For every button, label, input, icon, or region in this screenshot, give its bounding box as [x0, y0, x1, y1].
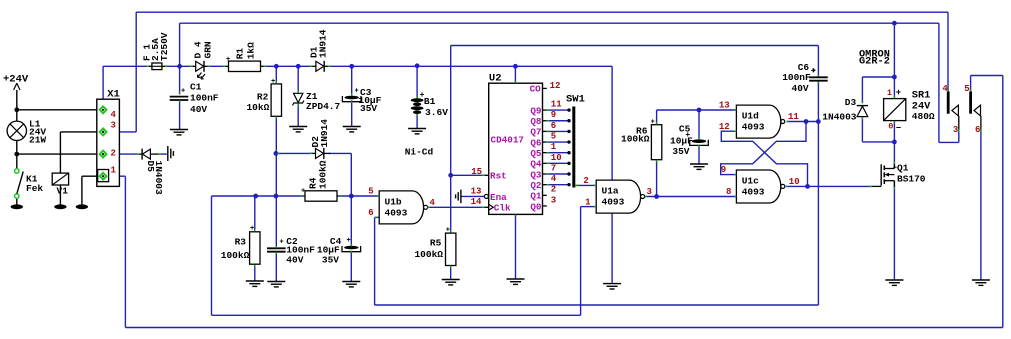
svg-text:Q9: Q9	[530, 105, 542, 116]
svg-text:1N4003: 1N4003	[822, 112, 857, 123]
svg-text:21W: 21W	[29, 135, 46, 146]
svg-text:35V: 35V	[360, 103, 377, 114]
svg-text:U1d: U1d	[742, 111, 759, 122]
svg-text:Q8: Q8	[530, 116, 542, 127]
svg-text:1: 1	[551, 142, 557, 152]
svg-text:U1c: U1c	[742, 176, 759, 187]
svg-text:Ena: Ena	[490, 192, 507, 203]
svg-text:4093: 4093	[602, 197, 625, 208]
svg-text:5: 5	[368, 187, 373, 197]
svg-text:D3: D3	[845, 97, 857, 108]
svg-text:GRN: GRN	[202, 41, 213, 58]
svg-text:+: +	[685, 131, 690, 140]
svg-text:C1: C1	[190, 81, 202, 92]
svg-text:10: 10	[789, 177, 800, 187]
svg-text:8: 8	[726, 187, 731, 197]
svg-text:6: 6	[368, 208, 373, 218]
svg-text:13: 13	[471, 186, 482, 196]
svg-text:3: 3	[647, 187, 652, 197]
svg-text:100kΩ: 100kΩ	[318, 160, 329, 189]
svg-text:4: 4	[430, 198, 436, 208]
svg-text:Clk: Clk	[494, 203, 511, 214]
svg-text:+: +	[226, 56, 230, 64]
svg-text:9: 9	[721, 165, 726, 175]
svg-text:+24V: +24V	[3, 73, 29, 85]
svg-text:3: 3	[551, 195, 556, 205]
svg-text:40V: 40V	[792, 83, 809, 94]
svg-text:1: 1	[887, 88, 892, 98]
svg-text:Q0: Q0	[530, 201, 542, 212]
svg-text:+: +	[347, 237, 351, 245]
svg-text:V1: V1	[57, 186, 69, 197]
svg-text:1: 1	[111, 165, 117, 175]
svg-text:T250V: T250V	[159, 32, 170, 61]
svg-text:Q3: Q3	[530, 169, 542, 180]
svg-text:CO: CO	[530, 84, 542, 95]
svg-text:5: 5	[551, 131, 556, 141]
svg-text:CD4017: CD4017	[491, 135, 524, 146]
svg-text:480Ω: 480Ω	[912, 111, 935, 122]
svg-text:SW1: SW1	[566, 94, 585, 106]
svg-text:+: +	[811, 67, 816, 76]
svg-text:+: +	[301, 188, 305, 196]
svg-text:7: 7	[551, 163, 556, 173]
svg-text:11: 11	[551, 100, 562, 110]
svg-text:14: 14	[471, 197, 482, 207]
svg-text:35V: 35V	[672, 146, 689, 157]
svg-text:40V: 40V	[286, 255, 303, 266]
svg-text:1N914: 1N914	[319, 119, 330, 148]
svg-text:X1: X1	[107, 89, 120, 101]
svg-text:13: 13	[719, 101, 730, 111]
svg-text:4093: 4093	[385, 208, 408, 219]
svg-text:1kΩ: 1kΩ	[245, 42, 256, 59]
svg-text:Q1: Q1	[897, 163, 909, 174]
svg-text:Ni-Cd: Ni-Cd	[405, 147, 434, 158]
svg-text:1N914: 1N914	[317, 29, 328, 58]
svg-text:+: +	[271, 78, 275, 86]
svg-text:3: 3	[953, 125, 958, 135]
svg-text:B1: B1	[424, 96, 436, 107]
svg-text:9: 9	[551, 110, 556, 120]
svg-text:+: +	[651, 118, 655, 126]
svg-text:R3: R3	[235, 237, 247, 248]
svg-text:15: 15	[471, 167, 482, 177]
svg-text:100nF: 100nF	[782, 72, 811, 83]
svg-text:Q4: Q4	[530, 159, 542, 170]
svg-text:11: 11	[788, 112, 799, 122]
svg-text:G2R-2: G2R-2	[859, 56, 890, 68]
svg-text:R2: R2	[257, 92, 269, 103]
svg-text:1N4003: 1N4003	[153, 161, 164, 196]
svg-text:Q1: Q1	[530, 191, 542, 202]
svg-text:4093: 4093	[742, 187, 765, 198]
svg-text:U1a: U1a	[602, 186, 619, 197]
svg-text:2: 2	[583, 176, 588, 186]
svg-text:Q2: Q2	[530, 180, 542, 191]
svg-text:4: 4	[551, 174, 557, 184]
svg-text:+: +	[181, 88, 185, 96]
svg-text:4: 4	[111, 110, 117, 120]
svg-text:10kΩ: 10kΩ	[246, 102, 269, 113]
svg-text:2: 2	[551, 185, 556, 195]
svg-text:Fek: Fek	[26, 183, 43, 194]
svg-text:ZPD4.7: ZPD4.7	[306, 101, 341, 112]
svg-text:5: 5	[964, 84, 969, 94]
svg-text:2: 2	[111, 148, 116, 158]
svg-text:U1b: U1b	[385, 197, 402, 208]
svg-text:10: 10	[551, 153, 562, 163]
svg-text:+: +	[250, 225, 254, 233]
svg-text:100nF: 100nF	[190, 93, 219, 104]
svg-text:Q7: Q7	[530, 127, 541, 138]
svg-text:U2: U2	[489, 73, 502, 85]
svg-text:Q5: Q5	[530, 148, 542, 159]
svg-text:3: 3	[111, 121, 116, 131]
svg-text:Q6: Q6	[530, 137, 542, 148]
svg-text:+: +	[446, 227, 450, 235]
svg-text:4093: 4093	[742, 122, 765, 133]
svg-text:35V: 35V	[322, 255, 339, 266]
svg-text:100kΩ: 100kΩ	[221, 250, 250, 261]
svg-text:+: +	[280, 238, 284, 246]
svg-text:40V: 40V	[190, 104, 207, 115]
svg-text:0: 0	[888, 121, 893, 131]
svg-text:1: 1	[585, 197, 591, 207]
svg-text:6: 6	[975, 125, 980, 135]
svg-text:Rst: Rst	[490, 171, 507, 182]
svg-text:+: +	[896, 88, 901, 98]
svg-text:100kΩ: 100kΩ	[414, 249, 443, 260]
svg-text:−: −	[896, 124, 901, 134]
svg-text:R5: R5	[430, 238, 442, 249]
svg-text:6: 6	[551, 121, 556, 131]
svg-text:BS170: BS170	[897, 174, 926, 185]
svg-text:12: 12	[550, 81, 561, 91]
svg-text:R1: R1	[235, 48, 246, 60]
svg-text:12: 12	[719, 122, 730, 132]
svg-text:100kΩ: 100kΩ	[621, 134, 650, 145]
svg-text:3.6V: 3.6V	[425, 107, 448, 118]
